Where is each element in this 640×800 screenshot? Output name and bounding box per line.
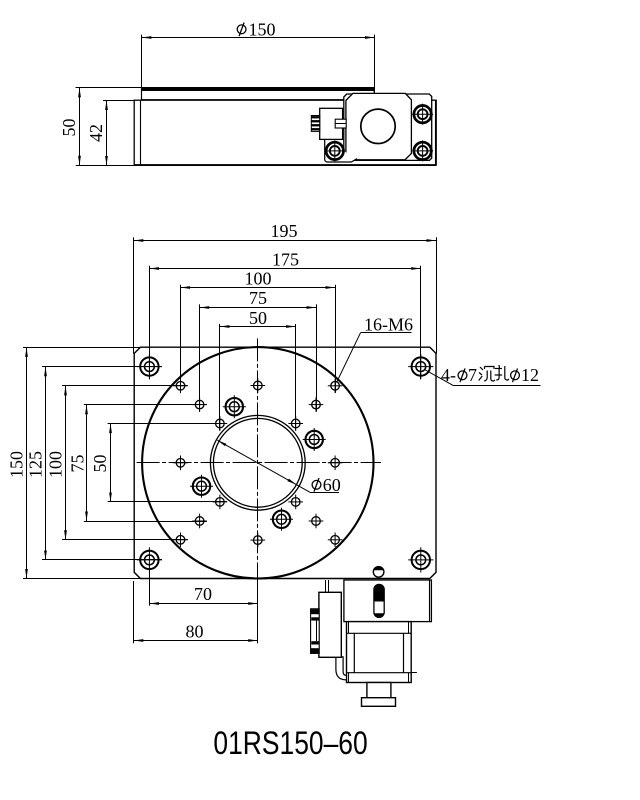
- M6 hole 100 square bottom right: [328, 533, 343, 548]
- corner hole bottom left: [137, 547, 162, 572]
- dimension 150 left: [7, 347, 141, 578]
- motor shaft boss: [367, 683, 391, 698]
- counterbore hole lower left: [190, 475, 213, 498]
- M6 hole left axis: [173, 456, 188, 471]
- motor bracket plan: [344, 580, 432, 622]
- connector comb pins: [311, 116, 319, 132]
- horizontal centerline: [137, 462, 381, 464]
- dimension 50 side: [59, 88, 134, 166]
- dimension 175: [149, 250, 420, 380]
- svg-text:80: 80: [186, 622, 204, 642]
- stepper motor plan: [347, 622, 417, 683]
- M6 hole 50 square bottom left: [213, 495, 228, 510]
- svg-text:100: 100: [46, 451, 66, 478]
- M6 hole 75 square top right: [309, 397, 324, 412]
- M6 hole 50 square bottom right: [288, 495, 303, 510]
- label 16-M6: [337, 315, 414, 383]
- M6 hole 75 square bottom left: [192, 514, 207, 529]
- svg-text:195: 195: [271, 221, 298, 241]
- screw pocket outline bottom left: [325, 140, 357, 162]
- dimension 75 top: [200, 288, 317, 411]
- M6 hole 100 square bottom left: [173, 533, 188, 548]
- corner hole top left: [137, 354, 162, 379]
- dimension 80 bottom: [134, 581, 258, 643]
- hanzi chen: [479, 367, 495, 382]
- dimension 50 left: [90, 424, 227, 502]
- M6 hole top axis: [250, 378, 265, 393]
- counterbore hole upper right: [303, 428, 326, 451]
- M6 hole 75 square top left: [192, 397, 207, 412]
- cable elbow: [336, 657, 347, 680]
- connector tab: [335, 119, 346, 128]
- svg-text:42: 42: [86, 124, 106, 142]
- M6 hole bottom axis: [250, 533, 265, 548]
- pin above slot: [373, 567, 384, 578]
- rotary plate side view: [76, 88, 375, 100]
- M6 hole 50 square top left: [213, 416, 228, 431]
- centerline extension below: [257, 581, 259, 643]
- svg-text:70: 70: [194, 584, 212, 604]
- center bore d60: [210, 415, 305, 510]
- M6 hole 50 square top right: [288, 416, 303, 431]
- label 4-d7 counterbore d12: [425, 365, 541, 386]
- base plate square: [134, 347, 436, 578]
- motor mount plate side view: [344, 94, 432, 160]
- svg-text:125: 125: [26, 451, 46, 478]
- screw hole top right: [412, 104, 433, 125]
- svg-text:175: 175: [272, 250, 299, 270]
- dimension 42 side: [86, 100, 134, 165]
- connector block side view: [320, 108, 343, 139]
- dimension 125 left: [26, 367, 163, 560]
- svg-text:75: 75: [249, 288, 267, 308]
- corner hole bottom right: [408, 547, 433, 572]
- svg-text:60: 60: [323, 475, 341, 495]
- housing body side view: [134, 100, 436, 166]
- M6 hole 100 square top right: [328, 379, 343, 394]
- bracket slot: [374, 584, 384, 617]
- counterbore hole lower right: [270, 508, 293, 531]
- motor face square side view: [346, 93, 412, 159]
- hanzi kong: [495, 365, 509, 380]
- svg-text:12: 12: [521, 365, 539, 385]
- housing chamfer edge line: [140, 100, 142, 165]
- svg-text:16-M6: 16-M6: [364, 315, 413, 335]
- rotary table circle d150: [142, 347, 373, 578]
- svg-text:150: 150: [249, 19, 276, 39]
- dimension d150: [142, 19, 375, 93]
- svg-text:7: 7: [468, 365, 477, 385]
- connector block plan: [319, 592, 341, 657]
- M6 hole right axis: [328, 456, 343, 471]
- leader d60: [217, 440, 340, 495]
- svg-text:50: 50: [90, 455, 110, 473]
- dimension 70 bottom: [149, 567, 257, 606]
- dimension 195: [134, 221, 437, 354]
- M6 hole 75 square bottom right: [309, 514, 324, 529]
- svg-text:150: 150: [7, 451, 27, 478]
- svg-text:50: 50: [59, 119, 79, 137]
- svg-text:75: 75: [67, 455, 87, 473]
- d-sub connector plan: [311, 609, 320, 654]
- connector mount lines: [326, 580, 329, 592]
- dimension 75 left: [67, 405, 207, 522]
- svg-text:100: 100: [245, 269, 272, 289]
- screw hole bottom right: [412, 140, 433, 161]
- svg-text:50: 50: [249, 308, 267, 328]
- dimension 100 top: [181, 269, 336, 393]
- svg-text:4-: 4-: [441, 365, 456, 385]
- screw hole bottom left: [324, 140, 345, 161]
- dimension 50 top: [220, 308, 296, 431]
- svg-text:01RS150–60: 01RS150–60: [213, 725, 367, 761]
- vertical centerline: [257, 338, 259, 581]
- motor end cap: [362, 698, 396, 707]
- counterbore hole upper left: [223, 395, 246, 418]
- corner hole top right: [408, 354, 433, 379]
- center bore chamfer circle: [213, 418, 302, 507]
- dimension 100 left: [46, 386, 188, 540]
- M6 hole 100 square top left: [173, 379, 188, 394]
- motor pilot circle: [361, 109, 395, 143]
